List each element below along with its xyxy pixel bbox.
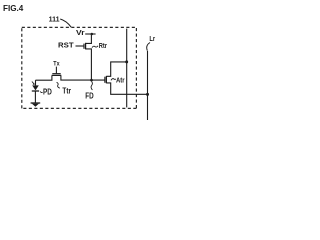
svg-text:PD: PD [43,88,52,97]
squiggle leader FD [91,82,92,91]
wire PD to ground [34,91,36,103]
wire Ttr drain lead / FD net to Atr gate [61,76,105,81]
svg-text:FD: FD [85,91,93,100]
transistor Rtr gate bar [83,44,85,49]
ground symbol [31,102,41,104]
junction dot Atr source on Lr [146,93,149,96]
wire Tx gate stem [55,67,57,74]
wire Atr drain lead to supply line [107,62,127,76]
transistor Atr channel bar [105,76,107,84]
wire RST drain to Vr [86,34,92,43]
junction dot FD [90,79,93,82]
squiggle leader Atr [111,79,116,81]
node Vr stub wire [85,33,95,35]
wire RST source lead down to FD [86,49,92,80]
wire Ttr source lead to PD [36,76,52,81]
svg-text:111: 111 [49,15,60,24]
transistor Atr gate bar [104,77,106,83]
svg-text:Vr: Vr [76,28,85,37]
squiggle leader Rtr [92,46,98,48]
leader line for 111 [60,19,71,27]
vertical supply line Vr column [126,29,128,108]
light arrow into photodiode [32,82,34,84]
squiggle leader Ttr [57,82,60,88]
leader tick PD [40,91,42,92]
leader line for Lr [147,43,150,51]
dashed pixel box 111 [22,26,137,28]
svg-text:Lr: Lr [149,36,155,43]
transistor Ttr channel bar [52,74,62,76]
wire Atr source lead to Lr line [107,83,148,94]
junction dot Atr drain on supply line [125,60,128,63]
svg-text:Tx: Tx [53,61,60,68]
svg-text:Ttr: Ttr [62,87,71,96]
svg-text:RST: RST [58,41,74,50]
svg-text:FIG.4: FIG.4 [3,3,24,13]
wire RST gate lead [76,45,84,47]
svg-text:Rtr: Rtr [99,41,107,50]
photodiode PD cathode bar [32,90,39,92]
photodiode PD triangle [32,85,39,90]
junction dot at Vr [91,33,94,36]
svg-text:Atr: Atr [116,76,125,85]
vertical column line Lr [147,51,149,120]
transistor Rtr channel bar [85,43,87,50]
transistor Ttr gate bar [52,73,60,75]
wire PD lead down from wire [35,80,37,85]
